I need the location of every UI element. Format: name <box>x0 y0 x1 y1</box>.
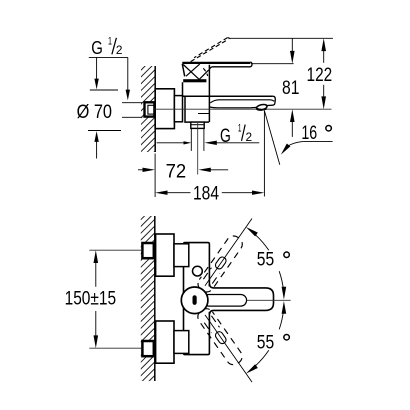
centerline / extension line through tap axis (side view) <box>154 108 332 110</box>
svg-text:2: 2 <box>246 132 253 144</box>
wall hatching (side view) <box>141 66 155 152</box>
dimension 16° <box>281 123 333 154</box>
dimension 150±15 extension lines <box>89 250 142 348</box>
dimension 184 <box>155 184 264 205</box>
wall face extension line down <box>154 154 156 198</box>
lever hub (front view) <box>181 287 208 314</box>
shower outlet pipe G1/2 (side view) <box>191 128 204 151</box>
mixer body plate (front view) <box>184 243 210 355</box>
label G 1/2 top left <box>89 35 128 58</box>
leader arrow from G1/2 to union <box>126 57 130 100</box>
lower escutcheon (front view) <box>156 321 174 363</box>
dimension 72 <box>138 161 228 182</box>
55° swing leg upper <box>205 219 252 286</box>
screw hole (front view) <box>193 266 203 276</box>
union nut at wall (side view) <box>145 102 155 116</box>
svg-text:122: 122 <box>307 65 333 86</box>
55° arc lower <box>246 301 286 374</box>
wall hatching (front view) <box>141 216 155 381</box>
dashed lever at -55° (front view) <box>195 306 245 368</box>
lever raised position (dashed, side view) <box>191 38 231 77</box>
hub slot <box>193 295 197 305</box>
wall face line (side view) <box>154 66 156 152</box>
lever (front view) <box>209 284 273 314</box>
wall face line (front view) <box>154 216 156 381</box>
pipe centerline extension <box>197 123 199 175</box>
dimension Ø70 extension lines <box>88 90 142 131</box>
escutcheon Ø70 (side view) <box>155 89 174 129</box>
cartridge ring (side view) <box>183 79 206 82</box>
svg-text:55: 55 <box>257 332 274 353</box>
dashed lever at +55° (front view) <box>195 233 245 295</box>
dimension Ø70 lower arrow <box>94 131 98 158</box>
lower union nut (front view) <box>142 341 153 356</box>
svg-text:184: 184 <box>193 184 219 205</box>
upper escutcheon (front view) <box>156 234 174 276</box>
svg-text:55: 55 <box>257 250 274 271</box>
55° swing leg lower <box>205 315 252 382</box>
extension line from lever top <box>251 63 294 65</box>
svg-text:72: 72 <box>166 161 187 182</box>
step cylinder (side view) <box>174 96 182 122</box>
lever grip recess (front view) <box>203 295 247 307</box>
svg-text:G: G <box>91 37 103 58</box>
label G 1/2 middle with leader arrow to outlet pipe <box>204 122 259 147</box>
spout (side view) <box>209 96 275 108</box>
lever handle (side view) <box>182 62 252 79</box>
svg-text:1: 1 <box>108 35 112 47</box>
water stream line 16° <box>264 111 279 165</box>
55° arc upper <box>246 227 286 300</box>
svg-text:Ø 70: Ø 70 <box>77 101 113 123</box>
dimension 150±15 <box>65 250 117 348</box>
leader arrow from G1/2 to escutcheon top <box>94 57 98 89</box>
leader arrow at pipe left <box>157 141 192 144</box>
upper step cylinder (front view) <box>174 244 189 267</box>
svg-text:150±15: 150±15 <box>65 288 117 309</box>
lower step cylinder (front view) <box>174 331 189 354</box>
extension line from raised lever top <box>230 37 333 39</box>
lever centerline <box>247 299 291 301</box>
upper union nut (front view) <box>142 243 153 258</box>
aerator drip at spout tip <box>256 104 268 111</box>
dimension 122 <box>307 38 333 109</box>
mixer body (side view) <box>183 65 273 122</box>
shower outlet collar (side view) <box>191 122 204 128</box>
dimension 81 <box>282 38 299 137</box>
svg-text:81: 81 <box>282 78 299 99</box>
svg-text:1: 1 <box>238 122 242 134</box>
extension line at spout tip / 16° vertex <box>263 111 265 197</box>
svg-text:2: 2 <box>116 45 123 57</box>
svg-text:G: G <box>220 126 231 147</box>
